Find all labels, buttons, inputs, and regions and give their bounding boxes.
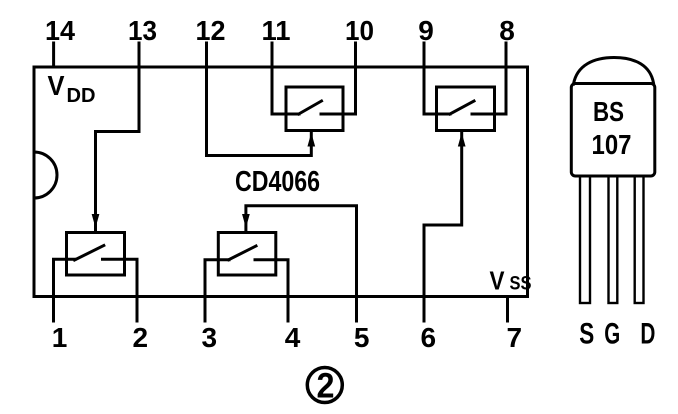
wire pin 3 to switch S4 left bbox=[205, 260, 229, 297]
svg-text:DD: DD bbox=[67, 85, 96, 107]
pin 4 bbox=[287, 297, 290, 322]
svg-text:SS: SS bbox=[510, 274, 532, 295]
wire pin 12 to switch S1 control bbox=[207, 67, 312, 156]
arrowhead on S3 control (down) bbox=[92, 215, 98, 227]
svg-text:11: 11 bbox=[262, 15, 291, 46]
svg-text:6: 6 bbox=[421, 322, 437, 353]
part label CD4066 bbox=[235, 166, 320, 198]
part label BS107 bbox=[592, 96, 632, 160]
svg-text:12: 12 bbox=[196, 15, 226, 46]
svg-text:8: 8 bbox=[499, 15, 515, 46]
svg-text:BS: BS bbox=[593, 96, 624, 127]
transistor Q1 BS107 body bbox=[571, 84, 655, 177]
svg-text:2: 2 bbox=[317, 367, 335, 406]
pin 13 bbox=[138, 43, 141, 67]
wire pin 11 to switch S1 left bbox=[272, 67, 299, 114]
net label VDD bbox=[48, 70, 96, 107]
wire pin 6 to switch S2 control bbox=[424, 131, 462, 297]
svg-text:9: 9 bbox=[418, 15, 434, 46]
analog switch S1 (pins 11-10) box bbox=[286, 87, 343, 131]
transistor leg D bbox=[635, 176, 644, 303]
wire pin 2 to switch S3 right bbox=[125, 259, 138, 296]
transistor leg G bbox=[609, 176, 618, 303]
transistor leg S bbox=[580, 176, 590, 303]
svg-text:13: 13 bbox=[128, 15, 157, 46]
analog switch S3 (pins 1-2) box bbox=[67, 233, 125, 276]
wire pin 5 to switch S4 control bbox=[246, 206, 357, 297]
pin 9 bbox=[423, 43, 426, 67]
switch S3 right contact bbox=[103, 258, 125, 261]
svg-text:7: 7 bbox=[507, 322, 523, 353]
switch S2 right contact bbox=[472, 113, 495, 116]
wire pin 1 to switch S3 left bbox=[54, 259, 76, 296]
pin 8 bbox=[505, 43, 508, 67]
pin 3 bbox=[204, 297, 207, 322]
switch S1 lever bbox=[299, 101, 322, 114]
pin-1 notch indicator bbox=[34, 152, 57, 198]
svg-text:2: 2 bbox=[133, 322, 149, 353]
transistor Q1 dome top bbox=[574, 58, 654, 85]
svg-text:G: G bbox=[604, 318, 620, 351]
svg-text:S: S bbox=[579, 318, 594, 351]
switch S4 lever bbox=[229, 246, 256, 260]
arrowhead on S2 control (up) bbox=[459, 135, 465, 147]
pin 2 bbox=[136, 297, 139, 322]
pin 7 bbox=[506, 297, 509, 322]
switch S3 lever bbox=[75, 246, 104, 261]
pin 12 bbox=[205, 43, 208, 67]
switch S4 right contact bbox=[255, 258, 276, 261]
arrowhead on S1 control (up) bbox=[308, 135, 314, 147]
wire pin 9 to switch S2 left bbox=[424, 67, 450, 114]
switch S2 lever bbox=[450, 101, 474, 114]
op-amp U1 CD4066 IC body outline bbox=[34, 67, 528, 297]
wire pin 8 to switch S2 right bbox=[495, 67, 507, 114]
svg-text:1: 1 bbox=[52, 322, 68, 353]
svg-text:14: 14 bbox=[45, 15, 75, 46]
arrowhead on S4 control (down) bbox=[243, 215, 249, 227]
figure number 2 circle bbox=[307, 368, 342, 403]
svg-text:4: 4 bbox=[285, 322, 301, 353]
wire pin 13 to switch S3 control bbox=[96, 67, 140, 233]
pin 5 bbox=[355, 297, 358, 322]
svg-text:V: V bbox=[490, 266, 506, 296]
svg-text:V: V bbox=[48, 70, 65, 101]
svg-text:D: D bbox=[640, 318, 655, 351]
pin 6 bbox=[423, 297, 426, 322]
pin 10 bbox=[354, 43, 357, 67]
pin 11 bbox=[271, 43, 274, 67]
switch S1 right contact bbox=[321, 113, 343, 116]
pin 14 bbox=[52, 43, 55, 67]
svg-text:10: 10 bbox=[345, 15, 374, 46]
analog switch S4 (pins 3-4) box bbox=[218, 233, 275, 276]
wire pin 10 to switch S1 right bbox=[343, 67, 356, 114]
pin 1 bbox=[52, 297, 55, 322]
net label VSS bbox=[490, 266, 532, 296]
analog switch S2 (pins 9-8) box bbox=[437, 87, 495, 131]
svg-text:CD4066: CD4066 bbox=[235, 166, 320, 198]
wire pin 4 to switch S4 right bbox=[276, 260, 288, 297]
svg-text:3: 3 bbox=[202, 322, 218, 353]
svg-text:107: 107 bbox=[592, 129, 632, 160]
svg-text:5: 5 bbox=[354, 322, 370, 353]
